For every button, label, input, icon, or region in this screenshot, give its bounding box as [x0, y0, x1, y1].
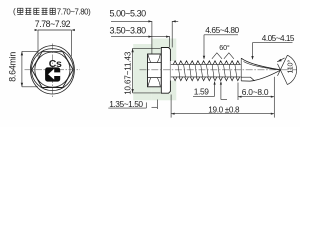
svg-text:60°: 60°	[219, 43, 230, 52]
screw axis centerline	[140, 69, 298, 71]
svg-text:4.65~4.80: 4.65~4.80	[205, 25, 239, 35]
highlight block B (behind head side view)	[152, 39, 176, 101]
svg-text:(: (	[13, 7, 16, 16]
svg-text:5.00~5.30: 5.00~5.30	[110, 9, 147, 19]
note (electroplating across-flats 7.70~7.80)	[13, 7, 91, 16]
svg-text:7.70~7.80): 7.70~7.80)	[57, 7, 91, 16]
svg-text:10.67~11.43: 10.67~11.43	[123, 51, 132, 95]
centerline horizontal	[25, 69, 81, 71]
washer flange side	[161, 48, 170, 94]
svg-text:7.78~7.92: 7.78~7.92	[35, 19, 71, 29]
svg-text:110°: 110°	[286, 60, 295, 74]
hex facet arcs	[148, 55, 160, 87]
highlight block A (behind flange-dia dimension)	[133, 44, 152, 100]
top zigzag	[173, 61, 240, 65]
svg-text:4.05~4.15: 4.05~4.15	[262, 34, 295, 43]
110 deg point angle fan	[278, 55, 297, 84]
svg-text:8.64min: 8.64min	[8, 52, 18, 82]
dim 19.0 +-0.8 (length)	[171, 77, 274, 118]
dim 8.64min (vertical across flats)	[22, 51, 38, 86]
svg-text:3.50~3.80: 3.50~3.80	[110, 26, 147, 36]
svg-text:6.0~8.0: 6.0~8.0	[242, 87, 269, 97]
hex circumscribed circle	[31, 49, 73, 91]
bottom root line	[171, 76, 241, 78]
centerline vertical	[51, 44, 53, 98]
svg-text:1.35~1.50: 1.35~1.50	[109, 99, 143, 109]
hex head side	[148, 54, 162, 87]
hexagon (flat top/bottom)	[32, 52, 73, 88]
top root line	[171, 63, 241, 65]
washer flange outer circle	[30, 46, 74, 94]
logo black square with white left arrow	[45, 67, 60, 81]
helix diagonals	[178, 64, 237, 77]
hex inscribed circle	[35, 52, 70, 87]
threads	[170, 61, 241, 81]
bottom zigzag	[173, 77, 240, 81]
svg-text:19.0 ±0.8: 19.0 ±0.8	[208, 105, 240, 114]
dim 10.67~11.43 (flange dia)	[133, 48, 161, 93]
svg-text:1.59: 1.59	[194, 86, 209, 96]
hex facet lines	[148, 63, 162, 78]
drill point	[241, 58, 280, 81]
